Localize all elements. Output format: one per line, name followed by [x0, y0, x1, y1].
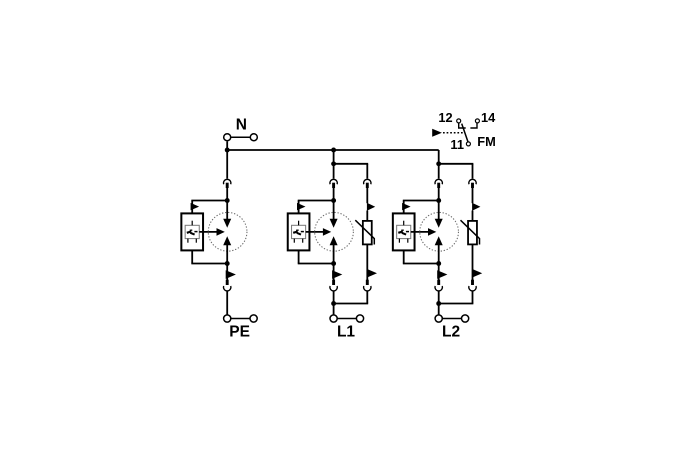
trigger electrode tick top L1	[298, 221, 300, 226]
wire L1 gap lower	[333, 245, 335, 264]
varistor L1 diagonal	[355, 220, 374, 244]
trigger arrow line PE	[199, 231, 217, 233]
wire L2 main drop	[438, 164, 440, 179]
varistor L2 diagonal	[461, 220, 480, 244]
varistor L1 box	[363, 221, 372, 245]
wire L1 trigger bottom horizontal	[298, 263, 334, 265]
trigger circuit box L2 outer	[393, 213, 415, 250]
wire L1 varistor lower	[366, 244, 368, 280]
thermal disconnect top L2 varistor	[469, 179, 476, 188]
wire L2 trigger bottom drop	[403, 250, 405, 263]
FM actuation dotted line	[443, 132, 464, 134]
thermal disconnect top PE main	[223, 179, 230, 188]
wire PE gap lower	[226, 245, 228, 264]
trigger arrow head L1	[323, 228, 331, 236]
wire PE gap upper	[226, 201, 228, 220]
junction N bus	[225, 148, 230, 153]
thermal disconnect top L1 main	[330, 179, 337, 188]
wire N drop	[226, 142, 228, 151]
wire L2 trigger top horizontal	[403, 200, 439, 202]
wire L1 disc to trigger junction	[333, 188, 335, 201]
spark gap L2 lower arrow	[435, 236, 443, 245]
spark gap L2 upper arrow	[435, 219, 443, 228]
wire L2 trigger bottom horizontal	[403, 263, 439, 265]
trigger arrow line L2	[411, 231, 429, 233]
wire PE trigger bottom horizontal	[191, 263, 227, 265]
svg-text:PE: PE	[229, 324, 250, 341]
status flag trigger L1	[297, 203, 306, 210]
varistor L2 box	[468, 221, 477, 245]
svg-text:FM: FM	[477, 134, 495, 149]
wire L1 sub-branch to varistor	[334, 163, 369, 165]
terminal PE	[224, 315, 258, 322]
thermal disconnect top L2 main	[435, 179, 442, 188]
node N terminal circles	[224, 134, 258, 141]
wire top bus	[227, 149, 439, 151]
terminal L2	[435, 315, 469, 322]
FM contact 14 circle	[475, 119, 479, 123]
spark gap PE dashed circle	[208, 212, 247, 251]
wire PE trigger top horizontal	[191, 200, 227, 202]
junction L1 sub-branch	[331, 161, 336, 166]
thermal disconnect bottom L2 main	[435, 280, 442, 291]
trigger electrode ticks bottom L1	[294, 239, 302, 243]
thermal disconnect bottom PE main	[223, 280, 230, 291]
wire L2 varistor lower	[472, 244, 474, 280]
wire L1 varistor upper	[366, 188, 368, 203]
thermal disconnect bottom L1 main	[330, 280, 337, 291]
wire L1 varistor to box	[366, 211, 368, 222]
trigger circuit box L2 inner	[397, 225, 411, 238]
lightning symbol PE	[187, 230, 198, 235]
wire PE trigger left drop	[191, 201, 193, 214]
wire L2 gap upper	[438, 201, 440, 220]
trigger arrow head L2	[428, 228, 436, 236]
spark gap L1 dashed circle	[315, 212, 354, 251]
wire L2 to terminal	[438, 291, 440, 315]
junction bus-L1	[331, 148, 336, 153]
status flag trigger L2	[402, 203, 411, 210]
spark gap L2 dashed circle	[420, 212, 459, 251]
wire L1 varistor bottom drop	[366, 291, 368, 303]
trigger electrode ticks bottom L2	[399, 239, 407, 243]
spark gap PE upper arrow	[223, 219, 231, 228]
wire L2 varistor join horizontal	[439, 303, 474, 305]
wire L1 varistor join horizontal	[334, 303, 369, 305]
trigger circuit box L1 outer	[288, 213, 310, 250]
FM contact 11 circle	[466, 142, 470, 146]
status flag L1 main	[332, 270, 342, 279]
junction L1 trigger bottom	[331, 261, 336, 266]
svg-text:L2: L2	[442, 324, 460, 341]
junction L2 trigger bottom	[436, 261, 441, 266]
status flag L2 varistor bottom	[472, 269, 482, 278]
FM contact 14 hook	[470, 123, 477, 128]
trigger circuit box PE outer	[181, 213, 203, 250]
wire PE bottom flag segment	[226, 264, 228, 281]
wire L2 upper drop	[438, 150, 440, 164]
wire L2 disc to trigger junction	[438, 188, 440, 201]
lightning symbol L1	[293, 230, 304, 235]
FM switch arm	[462, 124, 468, 142]
wire L1 trigger top horizontal	[298, 200, 334, 202]
spark gap L1 upper arrow	[330, 219, 338, 228]
trigger circuit box L1 inner	[292, 225, 306, 238]
thermal disconnect top L1 varistor	[364, 179, 371, 188]
trigger electrode tick top PE	[191, 221, 193, 226]
trigger arrow head PE	[217, 228, 225, 236]
status flag L2 main	[437, 270, 447, 279]
status flag L1 varistor top	[367, 203, 375, 211]
trigger arrow line L1	[306, 231, 324, 233]
status flag L1 varistor bottom	[367, 269, 377, 278]
junction L1 varistor join	[331, 301, 336, 306]
svg-text:L1: L1	[337, 324, 355, 341]
thermal disconnect bottom L1 varistor	[364, 280, 371, 291]
trigger circuit box PE inner	[185, 225, 199, 238]
wire L2 gap lower	[438, 245, 440, 264]
wire L2 varistor to box	[472, 211, 474, 222]
wire L2 varistor bottom drop	[472, 291, 474, 303]
svg-text:N: N	[236, 116, 247, 133]
junction PE trigger bottom	[225, 261, 230, 266]
wire L1 varistor top drop	[366, 164, 368, 179]
spark gap L1 lower arrow	[330, 236, 338, 245]
svg-text:11: 11	[450, 137, 464, 152]
wire PE disc to trigger junction	[226, 188, 228, 201]
status flag trigger PE	[191, 203, 200, 210]
wire L1 main drop	[333, 164, 335, 179]
trigger electrode ticks bottom PE	[188, 239, 196, 243]
wire L2 sub-branch to varistor	[439, 163, 474, 165]
junction L1 trigger top	[331, 198, 336, 203]
FM contact 12 circle	[457, 119, 461, 123]
spark gap PE lower arrow	[223, 236, 231, 245]
wire L2 varistor upper	[472, 188, 474, 203]
wire PE main drop	[226, 150, 228, 179]
wire L1 upper drop	[333, 150, 335, 164]
svg-text:14: 14	[481, 110, 496, 125]
wire L1 gap upper	[333, 201, 335, 220]
wire L2 varistor top drop	[472, 164, 474, 179]
junction L2 trigger top	[436, 198, 441, 203]
wire L1 bottom flag segment	[333, 264, 335, 281]
junction L2 sub-branch	[436, 161, 441, 166]
wire L2 bottom flag segment	[438, 264, 440, 281]
wire L1 trigger left drop	[298, 201, 300, 214]
FM actuation arrow	[432, 129, 442, 137]
svg-text:12: 12	[438, 110, 452, 125]
junction PE trigger top	[225, 198, 230, 203]
wire PE trigger bottom drop	[191, 250, 193, 263]
status flag PE main	[226, 270, 236, 279]
junction L2 varistor join	[436, 301, 441, 306]
status flag L2 varistor top	[472, 203, 480, 211]
wire L2 trigger left drop	[403, 201, 405, 214]
lightning symbol L2	[398, 230, 409, 235]
wire PE to terminal	[226, 291, 228, 315]
trigger electrode tick top L2	[403, 221, 405, 226]
wire L1 trigger bottom drop	[298, 250, 300, 263]
wire L1 to terminal	[333, 291, 335, 315]
thermal disconnect bottom L2 varistor	[469, 280, 476, 291]
FM contact 12 hook	[459, 123, 466, 128]
terminal L1	[330, 315, 364, 322]
